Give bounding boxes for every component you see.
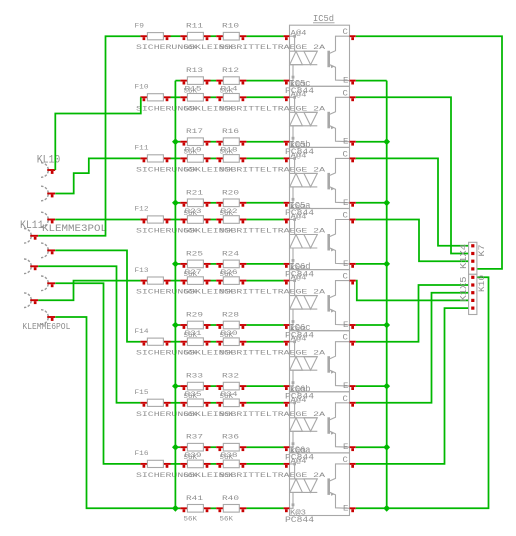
label R10 xyxy=(222,22,239,30)
wire KL12.3 to F13 xyxy=(38,281,140,301)
svg-text:R27: R27 xyxy=(185,268,202,276)
pin E IC5d xyxy=(350,81,356,85)
svg-text:K1X5: K1X5 xyxy=(458,276,469,301)
wire net K2 return row xyxy=(175,141,180,143)
label R14 (overlapped) xyxy=(221,85,238,93)
label K10 (rotated) xyxy=(477,275,487,292)
svg-text:R41: R41 xyxy=(186,494,203,502)
value 56K R25 xyxy=(184,270,198,278)
pin name C IC5a xyxy=(343,211,348,221)
wire KL12.2 to F16 xyxy=(55,283,140,464)
fuse F16 xyxy=(140,460,170,468)
value PC844 IC6c xyxy=(285,392,314,401)
resistor R37 xyxy=(180,443,210,451)
value 56K R27 xyxy=(184,288,198,296)
value 56K R10 xyxy=(220,44,234,52)
pin name K@3 IC5a xyxy=(290,264,306,273)
label R33 xyxy=(186,372,203,380)
wire net K7 return row xyxy=(175,446,180,448)
value 56K R41 xyxy=(184,515,198,523)
svg-text:C: C xyxy=(343,27,348,37)
wire E1 stub xyxy=(356,80,387,82)
wire E4 stub xyxy=(356,263,387,265)
svg-text:IC5b: IC5b xyxy=(290,139,311,150)
pin K10.3 xyxy=(471,291,474,294)
pin K IC6b xyxy=(284,447,290,451)
fuse F10 xyxy=(140,94,170,102)
junction xyxy=(172,444,179,451)
connector KL10 label xyxy=(37,155,61,167)
pin A IC5d xyxy=(284,36,290,40)
resistor R11 xyxy=(180,32,210,40)
wire C5 to K10 pin4 xyxy=(356,281,469,301)
svg-text:A@4: A@4 xyxy=(291,29,307,38)
resistor R15 xyxy=(180,94,210,102)
value text SICHERUNG row 1 xyxy=(136,44,326,52)
svg-text:C: C xyxy=(343,272,348,282)
pin name C IC6a xyxy=(343,455,348,465)
svg-text:R25: R25 xyxy=(186,250,203,258)
transistor IC5c phototransistor xyxy=(329,97,350,141)
junction xyxy=(172,383,179,390)
pin E IC5c xyxy=(350,142,356,146)
resistor R21 xyxy=(180,199,210,207)
pin K7.2 xyxy=(471,252,474,255)
pin name K@3 IC6c xyxy=(290,386,306,395)
connector KL11 pin 2 xyxy=(24,229,38,244)
pin K7.3 xyxy=(471,260,474,263)
svg-text:R26: R26 xyxy=(221,268,238,276)
value 56K R17 xyxy=(184,148,198,156)
op-amp U optocoupler IC5c box xyxy=(290,86,350,147)
fuse F15 xyxy=(140,399,170,406)
svg-text:IC5a: IC5a xyxy=(290,200,312,211)
value PC844 IC5d xyxy=(285,87,314,96)
diode LED pair IC6a xyxy=(290,463,318,509)
label F13 xyxy=(135,266,149,274)
svg-text:56K: 56K xyxy=(220,44,234,52)
svg-text:K1X4: K1X4 xyxy=(458,244,469,269)
svg-text:R18: R18 xyxy=(221,146,238,154)
diode LED pair IC6b xyxy=(290,402,318,448)
svg-text:R14: R14 xyxy=(221,85,238,93)
svg-text:E: E xyxy=(343,137,348,147)
svg-text:F10: F10 xyxy=(135,83,149,91)
pin name A@4 IC6a xyxy=(291,457,307,466)
wire C4 to K7 pin3 xyxy=(356,220,469,262)
label R18 (overlapped) xyxy=(221,146,238,154)
resistor R26 xyxy=(216,277,246,285)
resistor R39 xyxy=(180,460,210,468)
svg-text:56K: 56K xyxy=(184,288,198,296)
label R27 (overlapped) xyxy=(185,268,202,276)
svg-text:56K: 56K xyxy=(220,410,234,418)
resistor R40 xyxy=(216,505,246,513)
wire C6 to K10 pin2 xyxy=(356,285,469,342)
wire E2 stub xyxy=(356,141,387,143)
connector KL12 pin 2 xyxy=(41,276,55,291)
value 56K R32 xyxy=(220,393,234,401)
pin name K@3 IC6d xyxy=(290,325,306,334)
svg-text:E: E xyxy=(343,504,348,514)
pin name E IC6d xyxy=(343,320,348,330)
svg-text:F11: F11 xyxy=(135,144,149,152)
value text SICHERUNG row 8 xyxy=(136,471,326,479)
resistor R32 xyxy=(216,382,246,390)
value KLEMME3POL xyxy=(42,223,107,234)
fuse F13 xyxy=(140,277,170,285)
label R35 (overlapped) xyxy=(185,391,202,399)
svg-text:F12: F12 xyxy=(135,205,149,213)
svg-text:A@4: A@4 xyxy=(291,335,307,344)
svg-text:F13: F13 xyxy=(135,266,149,274)
connector KL11 pin 1 xyxy=(41,212,55,227)
svg-text:R28: R28 xyxy=(222,311,239,319)
connector KL12 pin 3 xyxy=(24,293,38,308)
resistor R13 xyxy=(180,77,210,85)
value 56K R34 xyxy=(220,410,234,418)
svg-text:56K: 56K xyxy=(184,410,198,418)
pin A IC6d xyxy=(284,281,290,285)
pin name C IC5d xyxy=(343,27,348,37)
transistor IC6a phototransistor xyxy=(329,464,350,508)
wire net K1 return row xyxy=(175,80,180,82)
pin K7.1 xyxy=(471,244,474,247)
value 56K R30 xyxy=(220,349,234,357)
svg-text:56K: 56K xyxy=(220,105,234,113)
svg-text:R23: R23 xyxy=(185,207,202,215)
junction xyxy=(172,261,179,268)
wire E common bus xyxy=(386,81,388,509)
svg-text:R38: R38 xyxy=(221,452,238,460)
label R15 (overlapped) xyxy=(185,85,202,93)
label R24 xyxy=(222,250,239,258)
svg-text:56K: 56K xyxy=(220,471,234,479)
pin name A@4 IC5a xyxy=(291,212,307,221)
junction xyxy=(383,138,390,145)
svg-text:56K: 56K xyxy=(220,515,234,523)
connector KL12 pin 4 xyxy=(41,310,55,325)
label R37 xyxy=(186,433,203,441)
label IC6c (overlapped) xyxy=(290,323,311,334)
pin name K@3 IC6b xyxy=(290,447,306,456)
svg-text:R32: R32 xyxy=(222,372,239,380)
label R36 xyxy=(222,433,239,441)
fuse F14 xyxy=(140,338,170,346)
connector KL10 pin 1 xyxy=(41,163,55,178)
value 56K R33 xyxy=(184,393,198,401)
value 56K R11 xyxy=(184,44,198,52)
value text SICHERUNG row 2 xyxy=(136,105,326,113)
resistor R18 xyxy=(216,155,246,163)
pin E IC6c xyxy=(350,386,356,390)
svg-text:R33: R33 xyxy=(186,372,203,380)
pin name K@3 IC5b xyxy=(290,203,306,212)
value 56K R36 xyxy=(220,454,234,462)
label R28 xyxy=(222,311,239,319)
pin K7.4 xyxy=(471,267,474,270)
value 56K R39 xyxy=(184,471,198,479)
label F9 xyxy=(135,22,145,30)
diode LED pair IC5d xyxy=(290,35,318,81)
pin name E IC6c xyxy=(343,381,348,391)
diode LED pair IC6c xyxy=(290,340,318,386)
value 56K R24 xyxy=(220,270,234,278)
svg-text:A@4: A@4 xyxy=(291,396,307,405)
label R25 xyxy=(186,250,203,258)
svg-text:E: E xyxy=(343,198,348,208)
pin name K@3 IC5d xyxy=(290,80,306,89)
value 56K R28 xyxy=(220,331,234,339)
svg-text:56K: 56K xyxy=(220,227,234,235)
label R17 xyxy=(186,128,203,136)
wire E3 stub xyxy=(356,202,387,204)
pin name E IC6a xyxy=(343,504,348,514)
label IC5c (overlapped) xyxy=(290,78,311,89)
pin K IC5b xyxy=(284,203,290,207)
label R22 (overlapped) xyxy=(221,207,238,215)
wire KL11.1 to F12 xyxy=(55,219,140,221)
svg-text:56K: 56K xyxy=(184,515,198,523)
label R40 xyxy=(222,494,239,502)
pin name A@4 IC5d xyxy=(291,29,307,38)
wire net K8 return row xyxy=(175,507,180,509)
pin name C IC6c xyxy=(343,333,348,343)
value 56K R40 xyxy=(220,515,234,523)
wire E7 stub xyxy=(356,446,387,448)
wire E5 stub xyxy=(356,324,387,326)
wire net A4 fuse row xyxy=(171,219,181,221)
label R13 xyxy=(186,67,203,75)
pin C IC5b xyxy=(350,158,356,162)
label K1X4 (rotated) xyxy=(458,244,469,269)
pin name C IC6b xyxy=(343,394,348,404)
label R39 (overlapped) xyxy=(185,452,202,460)
label R26 (overlapped) xyxy=(221,268,238,276)
svg-text:R24: R24 xyxy=(222,250,239,258)
svg-text:56K: 56K xyxy=(184,227,198,235)
svg-text:IC5c: IC5c xyxy=(290,78,311,89)
resistor R29 xyxy=(180,321,210,329)
svg-text:R17: R17 xyxy=(186,128,203,136)
svg-text:R37: R37 xyxy=(186,433,203,441)
transistor IC5b phototransistor xyxy=(329,158,350,202)
transistor IC6b phototransistor xyxy=(329,403,350,447)
pin E IC6d xyxy=(350,325,356,329)
pin E IC6a xyxy=(350,508,356,512)
value 56K R31 xyxy=(184,349,198,357)
junction xyxy=(383,383,390,390)
label R38 (overlapped) xyxy=(221,452,238,460)
pin K10.1 xyxy=(471,276,474,279)
svg-text:R16: R16 xyxy=(222,128,239,136)
junction xyxy=(172,199,179,206)
wire E8 stub xyxy=(356,507,387,509)
wire C7 to K10 pin3 xyxy=(356,293,469,403)
diode LED pair IC5a xyxy=(290,218,318,264)
wire KL10.1 to F10 xyxy=(55,97,141,170)
junction xyxy=(172,505,179,512)
junction xyxy=(383,261,390,268)
resistor R20 xyxy=(216,199,246,207)
connector K7 body xyxy=(469,242,477,274)
svg-text:56K: 56K xyxy=(220,288,234,296)
pin K IC6a xyxy=(284,508,290,512)
pin name K@3 IC6a xyxy=(290,508,306,517)
junction xyxy=(383,322,390,329)
pin C IC6a xyxy=(350,464,356,468)
label R31 (overlapped) xyxy=(185,329,202,337)
wire net K3 return row xyxy=(175,202,180,204)
svg-text:R40: R40 xyxy=(222,494,239,502)
pin name E IC5b xyxy=(343,198,348,208)
value text SICHERUNG row 4 xyxy=(136,227,326,235)
resistor R19 xyxy=(180,155,210,163)
resistor R36 xyxy=(216,443,246,451)
pin K10.4 xyxy=(471,299,474,302)
svg-text:F15: F15 xyxy=(135,388,149,396)
pin name C IC5b xyxy=(343,150,348,160)
wire net K4 return row xyxy=(175,263,180,265)
wire E bus to K10 pin1 xyxy=(387,277,489,508)
resistor R41 xyxy=(180,505,210,513)
label R30 (overlapped) xyxy=(221,329,238,337)
value 56K R26 xyxy=(220,288,234,296)
resistor R22 xyxy=(216,216,246,224)
value 56K R35 xyxy=(184,410,198,418)
value 56K R16 xyxy=(220,148,234,156)
pin K IC5c xyxy=(284,142,290,146)
connector KL11 pin 3 xyxy=(41,243,55,258)
pin name E IC6b xyxy=(343,442,348,452)
pin C IC5a xyxy=(350,220,356,224)
diode LED pair IC5c xyxy=(290,96,318,142)
svg-text:E: E xyxy=(343,381,348,391)
resistor R35 xyxy=(180,399,210,407)
label F16 xyxy=(135,450,149,458)
value 56K R13 xyxy=(184,87,198,95)
value text SICHERUNG row 3 xyxy=(136,166,326,174)
label R32 xyxy=(222,372,239,380)
label F14 xyxy=(135,327,149,335)
pin E IC5a xyxy=(350,264,356,268)
svg-text:IC6c: IC6c xyxy=(290,323,311,334)
label R23 (overlapped) xyxy=(185,207,202,215)
pin name C IC5c xyxy=(343,89,348,99)
svg-text:R36: R36 xyxy=(222,433,239,441)
svg-text:R12: R12 xyxy=(222,67,239,75)
wire KL10.2 to F11 xyxy=(55,158,140,193)
svg-text:R20: R20 xyxy=(222,189,239,197)
svg-text:R10: R10 xyxy=(222,22,239,30)
label R29 xyxy=(186,311,203,319)
resistor R24 xyxy=(216,260,246,268)
wire KL12.1 to F15 xyxy=(38,266,140,403)
svg-text:A@4: A@4 xyxy=(291,90,307,99)
resistor R25 xyxy=(180,260,210,268)
label IC6a (overlapped) xyxy=(290,445,312,456)
junction xyxy=(172,138,179,145)
wire K common bus xyxy=(174,81,176,509)
value PC844 IC5c xyxy=(285,148,314,157)
svg-text:R35: R35 xyxy=(185,391,202,399)
resistor R33 xyxy=(180,382,210,390)
junction xyxy=(383,199,390,206)
op-amp U optocoupler IC6a box xyxy=(290,453,350,516)
pin C IC6b xyxy=(350,403,356,407)
svg-text:KL10: KL10 xyxy=(37,155,61,167)
pin C IC5c xyxy=(350,97,356,101)
label IC6d (overlapped) xyxy=(290,261,311,272)
wire net A6 fuse row xyxy=(171,341,181,343)
value PC844 IC5a xyxy=(285,270,314,279)
resistor R30 xyxy=(216,338,246,346)
wire net K5 return row xyxy=(175,324,180,326)
wire C1 to K7 pin4 xyxy=(356,36,502,269)
transistor IC6c phototransistor xyxy=(329,342,350,386)
value text SICHERUNG row 5 xyxy=(136,288,326,296)
svg-text:F14: F14 xyxy=(135,327,149,335)
op-amp U optocoupler IC6c box xyxy=(290,331,350,392)
svg-text:R19: R19 xyxy=(185,146,202,154)
wire C3 to K7 pin1 xyxy=(356,158,469,245)
pin A IC5c xyxy=(284,97,290,101)
resistor R12 xyxy=(216,77,246,85)
label IC5a (overlapped) xyxy=(290,200,312,211)
svg-text:C: C xyxy=(343,211,348,221)
value text SICHERUNG row 7 xyxy=(136,410,326,418)
label F10 xyxy=(135,83,149,91)
label R11 xyxy=(186,22,203,30)
svg-text:R39: R39 xyxy=(185,452,202,460)
label R12 xyxy=(222,67,239,75)
value 56K R21 xyxy=(184,209,198,217)
svg-text:R15: R15 xyxy=(185,85,202,93)
svg-text:KL11: KL11 xyxy=(20,220,44,232)
svg-text:A@4: A@4 xyxy=(291,457,307,466)
svg-text:R11: R11 xyxy=(186,22,203,30)
pin name C IC6d xyxy=(343,272,348,282)
pin C IC5d xyxy=(350,36,356,40)
svg-text:56K: 56K xyxy=(184,105,198,113)
wire net A1 fuse row xyxy=(171,35,181,37)
svg-text:R31: R31 xyxy=(185,329,202,337)
svg-text:C: C xyxy=(343,89,348,99)
pin A IC5a xyxy=(284,220,290,224)
label IC5b (overlapped) xyxy=(290,139,311,150)
pin E IC6b xyxy=(350,447,356,451)
svg-text:R30: R30 xyxy=(221,329,238,337)
label F11 xyxy=(135,144,149,152)
svg-text:E: E xyxy=(343,259,348,269)
svg-text:F9: F9 xyxy=(135,22,145,30)
transistor IC5d phototransistor xyxy=(329,36,350,80)
pin A IC6c xyxy=(284,342,290,346)
value 56K R22 xyxy=(220,227,234,235)
svg-text:56K: 56K xyxy=(184,471,198,479)
value PC844 IC6a xyxy=(285,516,314,525)
resistor R23 xyxy=(180,216,210,224)
resistor R16 xyxy=(216,138,246,146)
pin name E IC5c xyxy=(343,137,348,147)
label R21 xyxy=(186,189,203,197)
label R16 xyxy=(222,128,239,136)
label F12 xyxy=(135,205,149,213)
transistor IC6d phototransistor xyxy=(329,281,350,325)
value 56K R29 xyxy=(184,331,198,339)
resistor R17 xyxy=(180,138,210,146)
pin E IC5b xyxy=(350,203,356,207)
